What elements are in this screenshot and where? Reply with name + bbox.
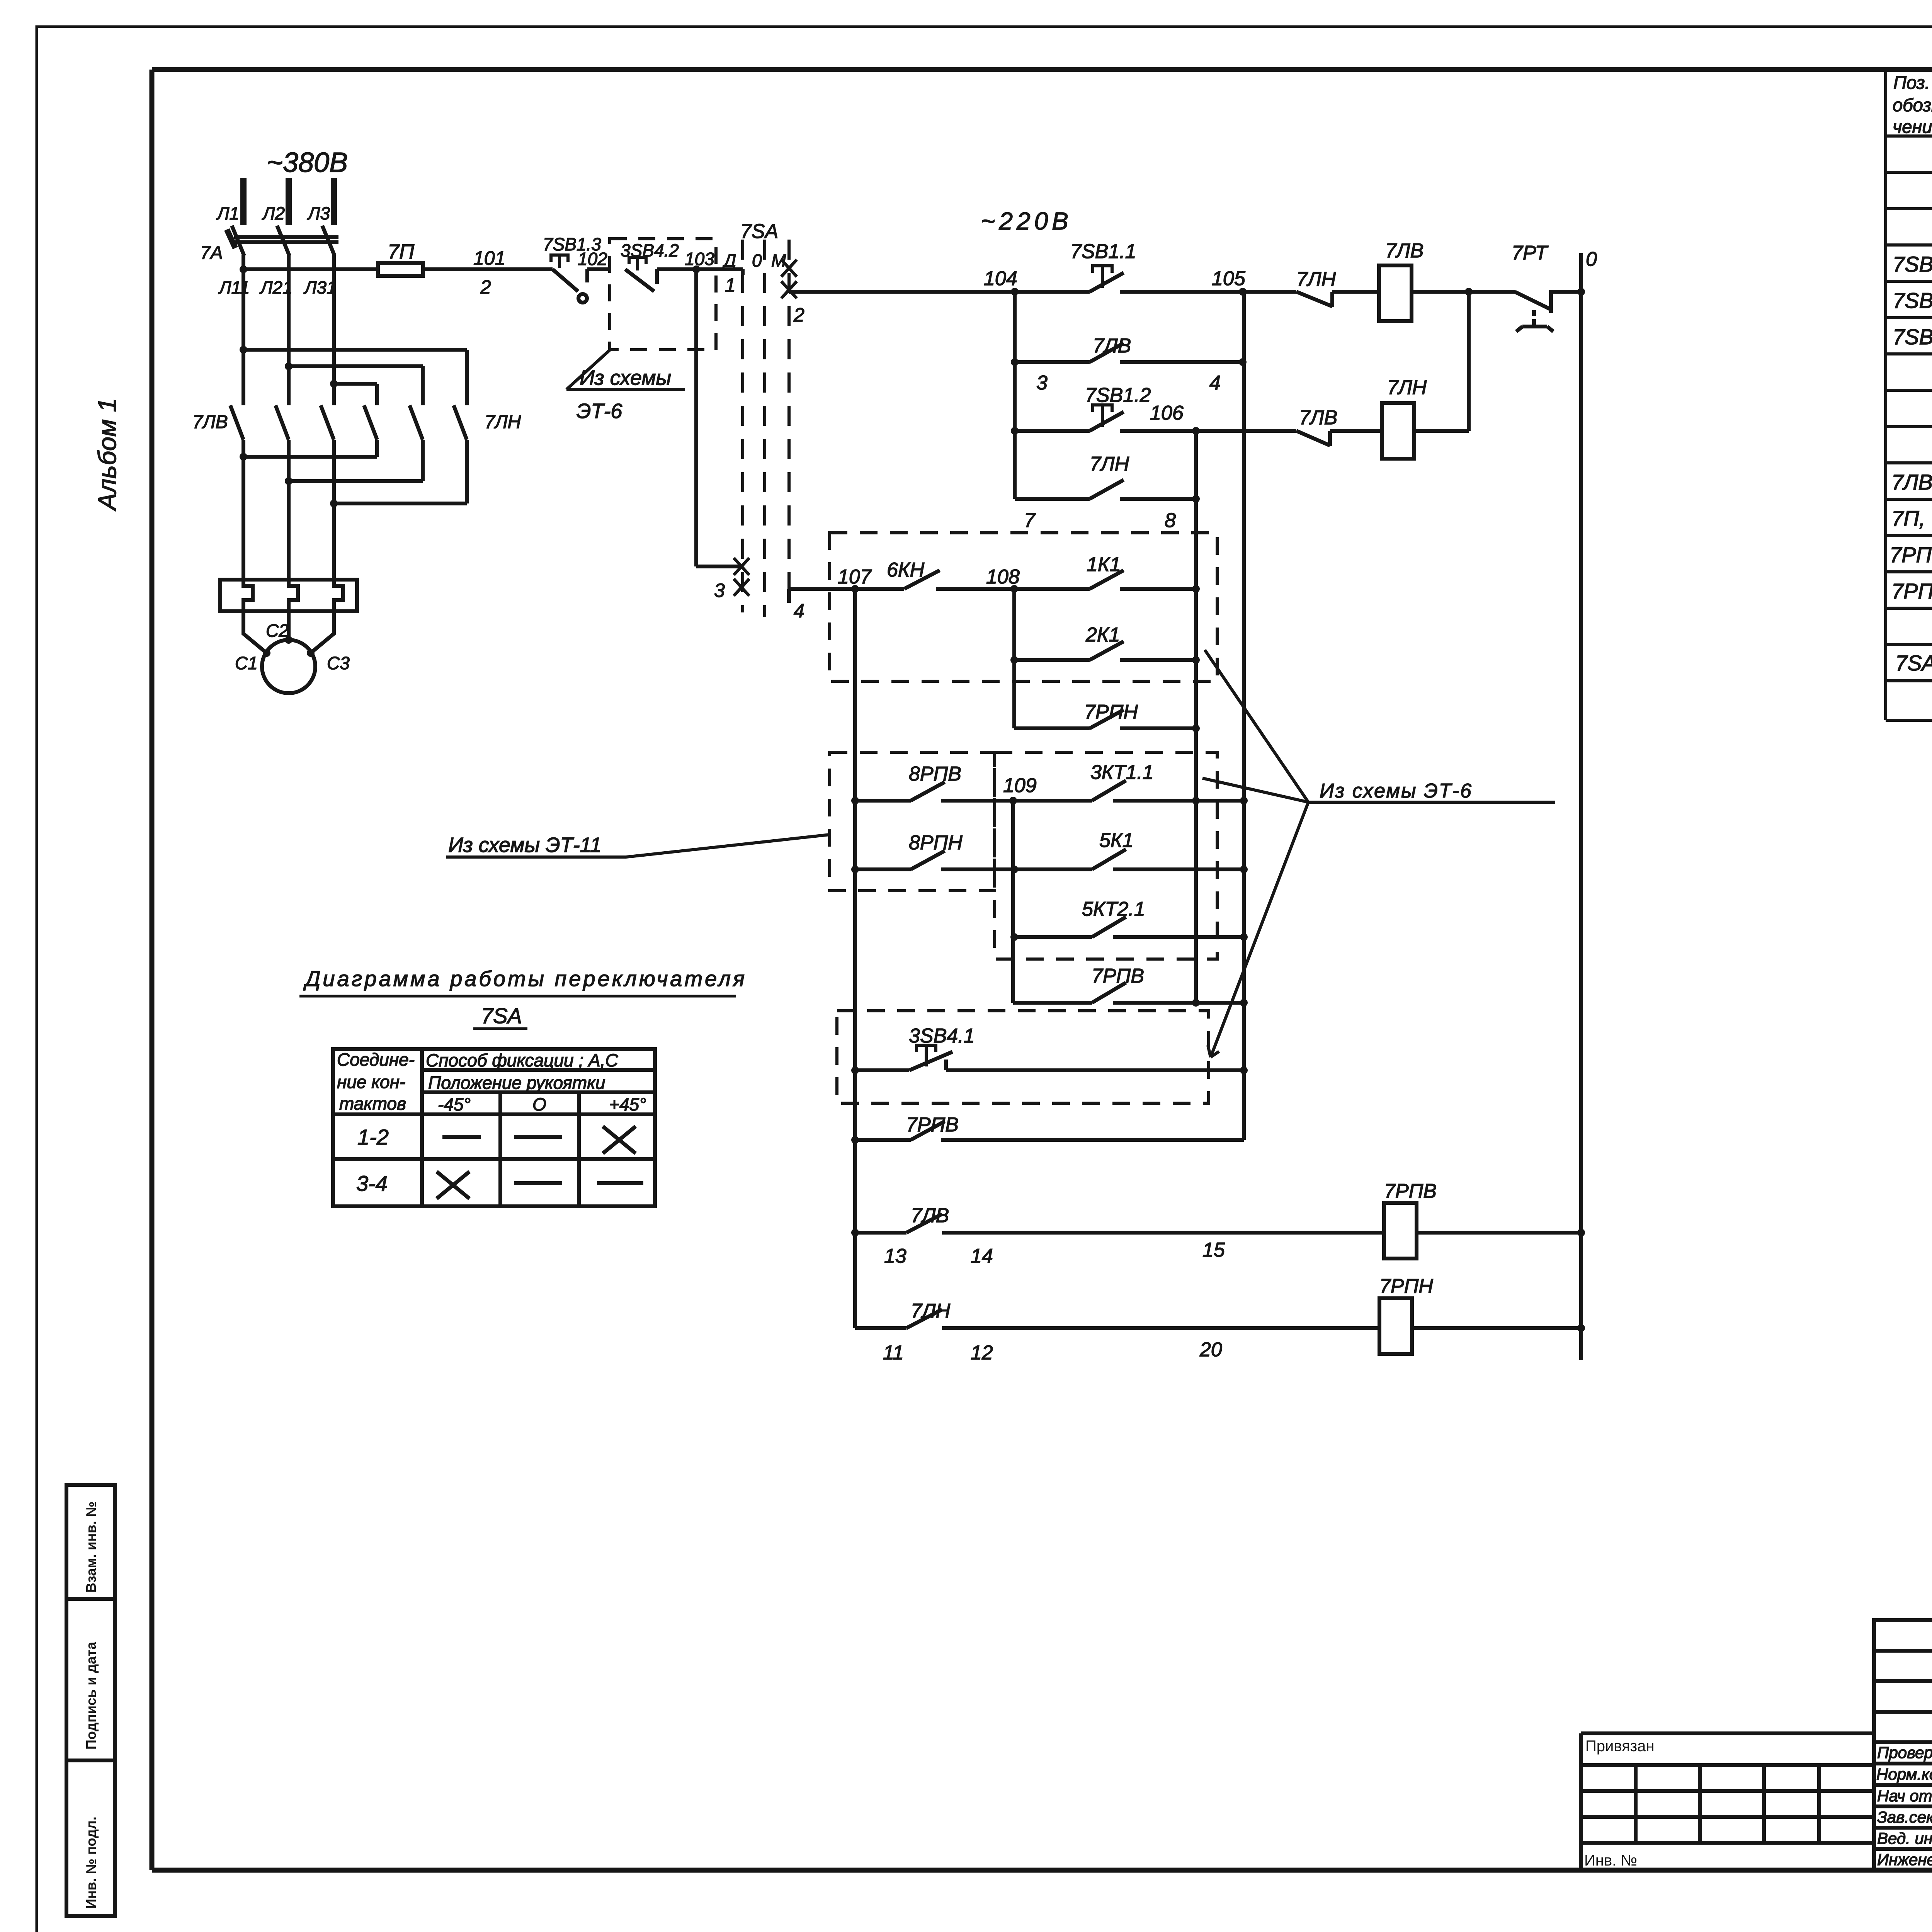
svg-text:8: 8 — [1165, 509, 1176, 532]
svg-text:12: 12 — [971, 1342, 993, 1364]
svg-text:7ЛВ: 7ЛВ — [1093, 335, 1131, 357]
svg-text:Провер.: Провер. — [1877, 1743, 1932, 1762]
svg-text:2: 2 — [793, 304, 804, 326]
svg-text:5К1: 5К1 — [1099, 829, 1134, 852]
svg-text:ние кон-: ние кон- — [337, 1072, 405, 1092]
svg-text:104: 104 — [984, 267, 1017, 290]
svg-text:1К1: 1К1 — [1087, 553, 1121, 576]
svg-text:7ЛН: 7ЛН — [911, 1300, 951, 1322]
svg-text:тактов: тактов — [339, 1094, 406, 1114]
svg-text:Подпись и дата: Подпись и дата — [83, 1641, 99, 1750]
svg-text:обозна-: обозна- — [1893, 95, 1932, 115]
svg-text:Л1: Л1 — [216, 203, 239, 223]
svg-text:3: 3 — [1036, 372, 1048, 394]
svg-text:Л21: Л21 — [259, 277, 293, 298]
svg-text:Из схемы: Из схемы — [580, 366, 671, 389]
svg-text:14: 14 — [971, 1245, 993, 1267]
svg-text:чение.: чение. — [1893, 116, 1932, 137]
svg-text:5КТ2.1: 5КТ2.1 — [1082, 898, 1145, 920]
svg-text:М: М — [771, 250, 786, 270]
svg-text:Норм.контр.: Норм.контр. — [1876, 1765, 1932, 1783]
svg-text:2: 2 — [480, 276, 491, 298]
svg-text:Взам. инв. №: Взам. инв. № — [83, 1502, 99, 1593]
svg-text:4: 4 — [1209, 372, 1221, 394]
svg-text:7П: 7П — [388, 240, 415, 264]
svg-text:~380В: ~380В — [267, 147, 348, 178]
svg-text:101: 101 — [473, 247, 505, 269]
svg-text:7РПВ,7А,: 7РПВ,7А, — [1889, 543, 1932, 567]
svg-text:Альбом 1: Альбом 1 — [93, 398, 121, 512]
svg-text:7ЛВ: 7ЛВ — [911, 1204, 949, 1227]
svg-text:7РПВ: 7РПВ — [1092, 965, 1144, 987]
svg-text:7РПН.: 7РПН. — [1891, 579, 1932, 603]
svg-text:105: 105 — [1212, 267, 1246, 290]
svg-text:С3: С3 — [327, 653, 350, 673]
svg-text:11: 11 — [883, 1342, 904, 1364]
svg-text:7А: 7А — [200, 243, 223, 263]
svg-text:Инженер.: Инженер. — [1877, 1850, 1932, 1869]
svg-text:7SВ1.3: 7SВ1.3 — [543, 234, 601, 254]
svg-text:7ЛН: 7ЛН — [1296, 268, 1336, 291]
svg-text:Диаграмма работы переключате: Диаграмма работы переключателя — [303, 966, 747, 991]
svg-text:7SВ1.3: 7SВ1.3 — [1893, 325, 1932, 349]
svg-text:7SА: 7SА — [481, 1003, 522, 1028]
svg-text:-45°: -45° — [438, 1094, 471, 1114]
svg-text:0: 0 — [1586, 248, 1597, 270]
svg-text:Л3: Л3 — [307, 203, 330, 223]
svg-text:4: 4 — [794, 600, 804, 622]
svg-text:2К1: 2К1 — [1085, 624, 1120, 646]
svg-text:1: 1 — [725, 274, 736, 296]
svg-text:3КТ1.1: 3КТ1.1 — [1090, 761, 1154, 784]
svg-text:Инв. №: Инв. № — [1584, 1852, 1637, 1869]
svg-text:О: О — [532, 1094, 546, 1114]
svg-text:107: 107 — [838, 566, 872, 588]
svg-text:106: 106 — [1150, 402, 1184, 424]
svg-text:+45°: +45° — [609, 1094, 646, 1114]
svg-text:С2: С2 — [266, 621, 289, 641]
svg-text:Из схемы ЭТ-11: Из схемы ЭТ-11 — [448, 833, 602, 857]
svg-text:3SВ4.2: 3SВ4.2 — [621, 240, 679, 260]
svg-text:3: 3 — [714, 580, 725, 601]
svg-text:Нач отб.: Нач отб. — [1877, 1787, 1932, 1805]
svg-text:108: 108 — [986, 566, 1020, 588]
svg-text:15: 15 — [1202, 1239, 1225, 1261]
svg-text:7РПВ: 7РПВ — [906, 1114, 959, 1136]
svg-text:6КН: 6КН — [887, 559, 925, 581]
svg-text:1-2: 1-2 — [357, 1125, 389, 1149]
svg-text:7ЛВ,7ЛН,: 7ЛВ,7ЛН, — [1891, 470, 1932, 494]
svg-text:С1: С1 — [235, 653, 258, 673]
svg-text:Л31: Л31 — [303, 277, 337, 298]
svg-text:7РПВ: 7РПВ — [1384, 1180, 1437, 1202]
svg-text:8РПВ: 8РПВ — [909, 763, 961, 785]
svg-text:Поз.: Поз. — [1893, 72, 1930, 93]
svg-text:7SА: 7SА — [740, 220, 778, 243]
svg-text:0: 0 — [752, 250, 762, 270]
svg-text:7РПН: 7РПН — [1084, 701, 1138, 723]
svg-text:8РПН: 8РПН — [909, 832, 963, 854]
svg-text:7: 7 — [1024, 509, 1036, 532]
svg-text:Л11: Л11 — [218, 277, 250, 298]
svg-text:7ЛН: 7ЛН — [1090, 453, 1129, 475]
svg-text:Д: Д — [722, 250, 736, 270]
svg-text:7РПН: 7РПН — [1379, 1275, 1433, 1298]
svg-text:3SВ4.1: 3SВ4.1 — [909, 1025, 975, 1047]
svg-text:109: 109 — [1003, 774, 1037, 797]
svg-text:7SА: 7SА — [1895, 651, 1932, 675]
svg-text:7П, 7РТ,: 7П, 7РТ, — [1891, 506, 1932, 531]
svg-text:7SВ1.2: 7SВ1.2 — [1085, 384, 1151, 406]
svg-text:7SВ1.1: 7SВ1.1 — [1893, 252, 1932, 276]
svg-text:7ЛВ: 7ЛВ — [192, 412, 228, 432]
svg-text:7SВ1.1: 7SВ1.1 — [1070, 240, 1136, 263]
svg-text:Зав.сект,: Зав.сект, — [1877, 1808, 1932, 1826]
svg-text:ЭТ-6: ЭТ-6 — [577, 400, 622, 423]
svg-text:7SВ1.2: 7SВ1.2 — [1893, 288, 1932, 313]
svg-text:Привязан: Привязан — [1585, 1738, 1654, 1755]
svg-text:20: 20 — [1199, 1338, 1222, 1361]
svg-text:3-4: 3-4 — [356, 1171, 388, 1196]
svg-text:Из схемы ЭТ-6: Из схемы ЭТ-6 — [1320, 780, 1473, 802]
svg-text:Соедине-: Соедине- — [337, 1049, 415, 1070]
svg-text:7РТ: 7РТ — [1512, 242, 1549, 264]
svg-text:7ЛВ: 7ЛВ — [1385, 240, 1423, 262]
svg-text:Инв. № подл.: Инв. № подл. — [83, 1816, 99, 1909]
svg-text:Вед. инж.: Вед. инж. — [1877, 1829, 1932, 1847]
svg-text:Л2: Л2 — [262, 203, 285, 223]
svg-text:Положение рукоятки: Положение рукоятки — [428, 1073, 605, 1093]
svg-text:13: 13 — [884, 1245, 906, 1267]
svg-text:7ЛН: 7ЛН — [485, 412, 521, 432]
svg-text:7ЛВ: 7ЛВ — [1299, 406, 1337, 429]
svg-text:Способ фиксации ; А,С: Способ фиксации ; А,С — [426, 1050, 618, 1070]
svg-text:103: 103 — [685, 249, 714, 269]
svg-text:~220В: ~220В — [981, 207, 1072, 235]
svg-text:7ЛН: 7ЛН — [1387, 376, 1427, 399]
